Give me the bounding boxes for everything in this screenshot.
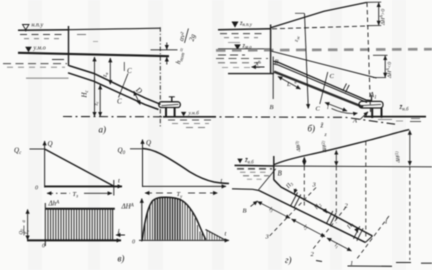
z_c dimension vertical (305, 14, 309, 109)
tick under dH>0 (367, 25, 381, 27)
water hatching under UMO (3, 60, 69, 79)
hump y-axis (141, 199, 143, 242)
water level mark NPU (open nabla) (23, 25, 30, 32)
tailwater line (163, 116, 216, 118)
NPU line extension over dam (69, 28, 161, 30)
l1 dimension (327, 238, 352, 251)
intake wall (273, 156, 275, 180)
curved leader to outlet (332, 109, 358, 114)
label P1 with arrow (346, 221, 358, 232)
section 1 dashed line (356, 216, 389, 260)
water level mark UMO (filled) (25, 47, 32, 52)
Tu dimension (145, 192, 218, 194)
UMO water line (thick, runs to outlet zone) (18, 53, 169, 56)
svg-text:н.п.у: н.п.у (32, 23, 44, 29)
label dH^A>0 (rotated) (379, 9, 387, 26)
svg-text:t: t (118, 178, 120, 185)
pipe end cap (365, 236, 372, 242)
svg-text:В: В (270, 104, 274, 111)
pipe tick marks mid (343, 84, 349, 93)
long gray dashed level line (216, 49, 432, 50)
section line B-B (259, 169, 276, 190)
T3 dimension (47, 192, 112, 194)
valve stem (169, 97, 175, 103)
Qc tick (30, 148, 45, 150)
L dimension segment 2 (325, 103, 347, 112)
svg-text:В: В (278, 170, 283, 178)
vertical dash-dot reference at outlet (159, 27, 161, 102)
dimension (3) (303, 157, 305, 165)
bank slope line (232, 189, 259, 191)
svg-text:1: 1 (385, 219, 388, 226)
x-bar axis arrow (252, 66, 265, 68)
label dH^(2) rotated (321, 140, 328, 153)
declining Q line (45, 149, 114, 186)
svg-text:t: t (221, 178, 223, 185)
rect top (45, 208, 115, 210)
section 2 dashed line (313, 207, 346, 249)
rect bottom / t-axis (27, 239, 121, 241)
svg-text:в: в (295, 81, 297, 86)
hump curve (142, 197, 206, 240)
svg-text:С: С (127, 67, 132, 75)
svg-text:в): в) (118, 254, 125, 264)
pipe inner line (274, 64, 368, 103)
tick on z_c top (295, 12, 305, 14)
dimension z_v (109, 58, 111, 84)
pipe top wall (274, 61, 372, 100)
dashed vertical at section 2 (335, 167, 337, 224)
label z_c (rotated) (93, 101, 99, 106)
pipe bottom wall (259, 191, 365, 243)
tailwater hatching (168, 120, 213, 128)
left dimension arrow rect (27, 209, 29, 240)
label dH^(3) rotated (295, 140, 302, 152)
svg-text:Q: Q (48, 140, 53, 148)
section line B-B (272, 57, 274, 100)
datum baseline (dash-dot) (63, 117, 395, 125)
label P3 with arrow (285, 181, 296, 194)
rect graph y-axis (44, 203, 46, 246)
tail triangle line (206, 230, 225, 240)
svg-text:zс: zс (93, 101, 99, 106)
dashed NPU extension (272, 26, 368, 29)
outlet valve body (359, 101, 383, 108)
dimension (2) (335, 150, 337, 165)
section 3 tick marks (291, 193, 301, 208)
valve legs (166, 108, 175, 117)
svg-text:б): б) (308, 124, 316, 134)
pipe bottom wall (thick) (274, 72, 363, 107)
svg-text:0: 0 (42, 244, 45, 250)
rotated label aQ0/T3 (20, 220, 31, 236)
Q-t graph 1 y-axis (44, 141, 46, 188)
intake wall (270, 25, 272, 74)
label dH^(1) rotated (395, 151, 402, 164)
label D (rotated) (133, 84, 144, 95)
dashed vertical at section 3 (303, 167, 305, 208)
dimension z_c (99, 85, 101, 116)
tick near section C (123, 62, 125, 71)
pipe top wall (274, 180, 373, 236)
tail triangle hatching (207, 231, 222, 240)
svg-text:А: А (352, 118, 357, 125)
headwater level mark (filled) (237, 159, 242, 164)
ground dashes bottom right (396, 262, 432, 265)
l2 dimension (292, 219, 326, 237)
svg-text:у.н.б: у.н.б (188, 110, 200, 117)
svg-text:С: С (330, 73, 335, 80)
dimension dH^A>0 (378, 3, 380, 26)
NPU water line (18, 29, 69, 32)
dashed vertical below dim 1 (409, 167, 411, 260)
label l2 (302, 224, 308, 231)
dimension dH^A<0 (384, 56, 386, 77)
vertical dashed section line A (367, 3, 371, 113)
hump hatching (145, 202, 153, 240)
dimension (1) (409, 130, 411, 165)
svg-text:Тз: Тз (25, 230, 30, 235)
valve stem (371, 95, 373, 101)
water hatching under NPU (20, 35, 98, 42)
diameter D arrow across pipe (134, 91, 140, 104)
intake wall (68, 26, 70, 66)
label l3 (268, 206, 274, 213)
rising head-loss curve (274, 130, 409, 165)
svg-text:z̃: z̃ (320, 122, 324, 130)
underline mark lower 2 (316, 261, 322, 262)
label B lower left with arrow (243, 201, 258, 215)
water hatching under UMO (216, 55, 268, 68)
pipe top wall (69, 66, 161, 105)
section line C-C (320, 72, 328, 104)
L dimension segment 1 (278, 77, 301, 90)
ground line left of intake (228, 73, 274, 75)
svg-text:С: С (117, 98, 122, 106)
small t axis between lower graphs (116, 229, 125, 236)
svg-text:Q: Q (146, 139, 151, 147)
tailwater hatching right (378, 119, 421, 122)
rect hatching (48, 210, 110, 240)
label l1 (333, 242, 339, 249)
label z_v (rotated) (103, 73, 109, 78)
exit energy tick line (151, 49, 178, 51)
NPU water line (218, 29, 271, 30)
rising piezometric line (dH>0 case) (271, 2, 367, 27)
hump x-axis (139, 239, 229, 241)
section 2 tick marks (327, 211, 337, 226)
descending piezometric line (dH<0 case) (272, 51, 377, 78)
headwater line (235, 164, 274, 167)
valve legs (372, 108, 381, 118)
svg-text:0: 0 (132, 240, 135, 246)
vertical dash-dot below valve (159, 109, 161, 128)
label z_c (rotated) (293, 35, 300, 43)
svg-text:t: t (225, 231, 227, 238)
label h_pot = alpha v^2 / 2g (rotated) (171, 26, 198, 66)
label P2 with arrow (313, 201, 327, 213)
tick at level u.m.o right (373, 54, 388, 56)
rect right edge (112, 209, 114, 240)
water level mark NPU (filled) (232, 22, 239, 28)
pipe bottom wall (68, 73, 159, 110)
reference line to right edge (274, 165, 432, 168)
svg-text:В: В (243, 208, 247, 215)
l3 dimension (258, 202, 291, 219)
svg-text:L: L (286, 81, 291, 88)
dimension Hc (94, 57, 96, 116)
svg-text:0: 0 (35, 186, 38, 192)
tick at top right (367, 1, 381, 3)
svg-text:С: С (316, 106, 321, 113)
t-axis graph 1 (45, 185, 122, 187)
section 1 tick marks (354, 226, 364, 241)
end tick T3 (113, 180, 115, 196)
tick at piezo end (373, 77, 386, 79)
svg-text:у.м.о: у.м.о (33, 46, 46, 52)
t-axis graph 2 (143, 185, 227, 187)
label A lower with arrow (352, 112, 368, 125)
label Hc (rotated) (81, 89, 91, 98)
svg-text:а): а) (99, 125, 107, 135)
label dH^A<0 (rotated) (385, 62, 393, 79)
tailwater level mark (181, 112, 186, 116)
outlet valve body (159, 102, 181, 108)
UMO thin line (218, 48, 271, 50)
svg-text:zв: zв (103, 73, 109, 78)
Q0 tick (130, 148, 143, 150)
water hatching under NPU (220, 34, 262, 43)
tailwater line right (364, 116, 426, 118)
h_pot dimension arrows (166, 43, 168, 65)
graph 2 y-axis (142, 140, 144, 188)
svg-text:г): г) (285, 255, 292, 265)
section 3 dashed line (269, 188, 316, 237)
water hatching (237, 169, 272, 179)
ground line bottom (348, 265, 393, 267)
water level mark UMO (filled) (234, 44, 241, 49)
section line C-C (119, 74, 129, 98)
decay curve (143, 149, 230, 184)
dashed vertical to pipe end (365, 142, 367, 238)
